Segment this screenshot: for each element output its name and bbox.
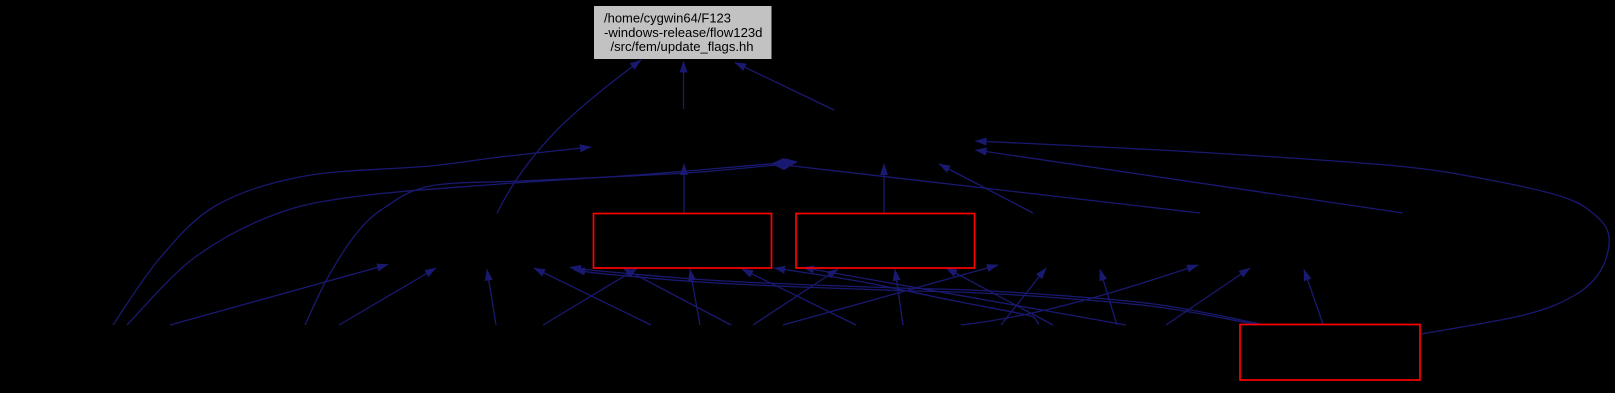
edge S21: [742, 269, 856, 325]
svg-text:/home/cygwin64/F123: /home/cygwin64/F123: [604, 10, 731, 25]
edge S20: [690, 270, 700, 326]
edge S9: red box 2 to node above: [883, 164, 885, 213]
edge S5: bottom-left node to diamond tip: [127, 162, 797, 326]
edge S6: bottom node to diamond tip 2: [305, 163, 796, 325]
edge S14: [339, 268, 436, 325]
edge S2: node B top to grey box: [683, 62, 685, 110]
edge S4: bottom-left node to node B left edge: [113, 147, 591, 325]
node label: /home/cygwin64/F123-windows-release/flow123d/src/fem/update_flags.hh: [604, 10, 763, 54]
edge S32: red box 3 top up-left: [1304, 270, 1323, 325]
node: red box 1: [594, 214, 772, 269]
node: red box 3: [1240, 325, 1420, 381]
node: red box 2: [796, 214, 975, 269]
edge S17: [534, 268, 651, 325]
edge S28: [1001, 268, 1046, 325]
edge S7: node(1200,213) to diamond from right: [772, 164, 1201, 214]
edge S26: [946, 268, 1053, 325]
node: grey title box: [594, 6, 772, 59]
edge S15: [487, 270, 496, 326]
edge S24: [753, 269, 838, 325]
edge S22: [774, 268, 1039, 325]
edge S23: from red box 3 top to red box 2 corner: [803, 268, 1126, 326]
edge S13: [170, 265, 388, 326]
edge S16: [543, 269, 637, 326]
edge S3: node C top to grey box: [735, 63, 834, 111]
edge S34: second long edge from red box 3 corner: [574, 270, 1253, 324]
edge S19: [624, 269, 732, 326]
edge S30: [961, 265, 1198, 325]
edge S27: [783, 265, 998, 325]
svg-text:/src/fem/update_flags.hh: /src/fem/update_flags.hh: [611, 39, 754, 54]
edge S31: [1166, 268, 1250, 325]
edge S8: red box 1 to node above: [683, 164, 685, 213]
edge S12: big arc from red box 3 right side: [976, 141, 1610, 334]
junction diamond at node bottom: [772, 158, 798, 170]
edge S10: node(1033,213) up-left: [939, 164, 1033, 213]
edge S25: [895, 270, 903, 326]
edge S18: long shallow from red box 3 top-left: [570, 268, 1260, 325]
svg-text:-windows-release/flow123d: -windows-release/flow123d: [604, 25, 763, 40]
edge S1: node A(497,213) to grey box: [497, 60, 641, 214]
edge S29: [1100, 270, 1117, 326]
edge S11: node(1403,213) up-left long: [976, 150, 1404, 213]
